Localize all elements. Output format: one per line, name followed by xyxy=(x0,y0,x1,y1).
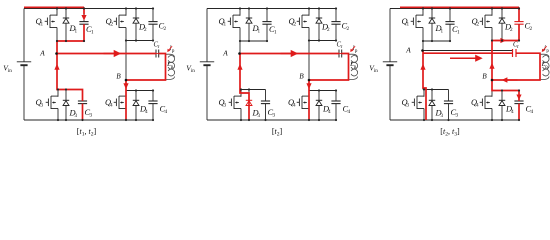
highlighted path: B group line to C4 xyxy=(492,80,519,101)
node B xyxy=(491,79,494,82)
arrow: ip current direction xyxy=(543,46,546,50)
wire: top rail xyxy=(390,8,519,10)
wire: top rail xyxy=(24,8,153,10)
svg-text:A: A xyxy=(405,46,411,55)
diode D2 xyxy=(316,9,322,41)
node B xyxy=(308,79,311,82)
svg-text:1: 1 xyxy=(407,22,410,28)
svg-text:3: 3 xyxy=(41,103,44,109)
svg-text:1: 1 xyxy=(441,29,444,35)
panel 3 xyxy=(369,7,549,137)
svg-text:1: 1 xyxy=(41,22,44,28)
wire: right bottom group line xyxy=(309,90,336,92)
wire: right leg crossing to node B xyxy=(491,41,493,81)
wire: Q4 leads / right leg lower xyxy=(125,80,127,120)
node A xyxy=(55,52,58,55)
svg-text:2: 2 xyxy=(144,27,147,33)
svg-text:[t2, t3]: [t2, t3] xyxy=(440,127,460,138)
transistor Q2 (right high-side switch) xyxy=(114,15,126,28)
arrow: ip current direction xyxy=(352,46,355,50)
svg-text:2: 2 xyxy=(510,27,513,33)
wire: left top group return line xyxy=(57,40,84,42)
svg-text:4: 4 xyxy=(165,109,168,115)
wire: Q2 leads / right leg upper xyxy=(125,9,127,41)
svg-text:3: 3 xyxy=(258,113,261,119)
highlighted path: B down through Q4 xyxy=(308,80,310,120)
svg-text:4: 4 xyxy=(348,109,351,115)
wire: bottom rail xyxy=(390,119,519,121)
wire: Q4 leads / right leg lower xyxy=(491,80,493,120)
wire: Q3 leads xyxy=(57,90,59,121)
arrow: return current toward B xyxy=(507,79,518,81)
svg-text:1: 1 xyxy=(457,30,460,36)
svg-text:B: B xyxy=(482,72,487,81)
svg-text:[t1, t2]: [t1, t2] xyxy=(77,127,97,138)
voltage source Vin xyxy=(17,9,31,121)
arrow: load current direction xyxy=(281,53,292,55)
wire: node A down + left bottom group line xyxy=(423,51,449,90)
wire: Q3 leads xyxy=(423,90,425,121)
svg-text:2: 2 xyxy=(347,26,350,32)
wire: node A to resonant capacitor xyxy=(240,53,339,55)
transistor Q1 (left high-side switch) xyxy=(228,15,240,28)
arrow: current up into node A xyxy=(54,64,59,70)
voltage source Vin xyxy=(383,9,397,121)
transistor Q3 (left low-side switch) xyxy=(46,96,58,109)
svg-text:4: 4 xyxy=(145,109,148,115)
svg-text:3: 3 xyxy=(224,103,227,109)
wire: Q3 leads xyxy=(240,90,242,121)
transistor Q4 (right low-side switch) xyxy=(480,96,492,109)
wire: right bottom group line xyxy=(492,90,519,92)
transistor Q1 (left high-side switch) xyxy=(45,15,57,28)
transformer primary winding Lp xyxy=(166,54,174,79)
svg-text:3: 3 xyxy=(441,113,444,119)
capacitor C3 xyxy=(261,90,270,121)
diode D3 xyxy=(429,90,435,121)
node A xyxy=(238,52,241,55)
svg-text:in: in xyxy=(374,68,378,74)
capacitor Cr (resonant, series) xyxy=(513,49,517,57)
capacitor C2 xyxy=(148,9,157,41)
arrow: current up into node A xyxy=(237,64,242,70)
svg-text:4: 4 xyxy=(511,109,514,115)
svg-text:1: 1 xyxy=(274,30,277,36)
diode D1 xyxy=(246,9,252,42)
highlighted path: load loop A-Cr-Lp-B xyxy=(240,53,339,55)
highlighted path: Q3 conducting up to node A xyxy=(423,51,426,121)
transistor Q4 (right low-side switch) xyxy=(114,96,126,109)
svg-text:2: 2 xyxy=(327,27,330,33)
highlighted path: D3 freewheeling up to node A xyxy=(240,54,249,121)
svg-text:3: 3 xyxy=(407,103,410,109)
svg-text:3: 3 xyxy=(273,113,276,119)
transformer primary winding Lp xyxy=(541,54,549,79)
svg-text:A: A xyxy=(39,49,45,58)
capacitor C4 xyxy=(514,91,523,121)
arrow: load current direction xyxy=(104,53,115,55)
arrow: current up from B xyxy=(489,63,494,69)
highlighted path: B down through Q4 xyxy=(125,80,127,120)
wire: Q2 leads / right leg upper xyxy=(491,9,493,41)
svg-text:2: 2 xyxy=(294,22,297,28)
arrow: ip current direction xyxy=(169,46,172,50)
wire: node A down + left bottom group line xyxy=(57,54,83,90)
transformer primary winding Lp xyxy=(349,54,357,79)
arrow: current toward C2 xyxy=(495,40,501,42)
wire: right leg crossing to node B xyxy=(308,41,310,81)
panel 1 xyxy=(3,7,175,137)
capacitor C1 xyxy=(79,9,88,42)
wire: left top group return line xyxy=(240,40,267,42)
highlighted path: C1 charging branch xyxy=(83,7,85,14)
diode D3 xyxy=(246,90,252,121)
svg-text:2: 2 xyxy=(477,22,480,28)
capacitor C2 xyxy=(331,9,340,41)
wire: Q1 drain/source leads xyxy=(239,9,241,42)
svg-text:1: 1 xyxy=(91,30,94,36)
svg-text:3: 3 xyxy=(90,113,93,119)
wire: Q4 leads / right leg lower xyxy=(308,80,310,120)
svg-text:4: 4 xyxy=(328,109,331,115)
svg-text:B: B xyxy=(116,72,121,81)
wire: left leg to node A xyxy=(239,41,241,54)
capacitor Cr (resonant, series) xyxy=(339,50,342,58)
wire: node A to resonant capacitor xyxy=(423,50,513,52)
transistor Q4 (right low-side switch) xyxy=(297,96,309,109)
highlighted path: load loop A-Cr-Lp-B xyxy=(57,53,156,55)
diode D2 xyxy=(133,9,139,41)
svg-text:2: 2 xyxy=(111,22,114,28)
wire: node A down + left bottom group line xyxy=(240,54,266,90)
svg-text:4: 4 xyxy=(293,103,296,109)
highlighted path: A to C3 (C3 discharging) xyxy=(57,54,83,102)
wire: node A to resonant capacitor xyxy=(57,53,156,55)
highlighted path: top rail to C1 xyxy=(24,6,84,8)
svg-text:A: A xyxy=(222,49,228,58)
voltage source Vin xyxy=(200,9,214,121)
transistor Q3 (left low-side switch) xyxy=(229,96,241,109)
capacitor C4 xyxy=(148,91,157,121)
highlighted path: load loop A-Cr-Lp-B xyxy=(423,52,513,54)
diode D1 xyxy=(429,9,435,42)
arrow: current down from B xyxy=(306,83,311,89)
arrow: current down from B xyxy=(123,83,128,89)
capacitor C1 xyxy=(445,9,454,42)
wire: left leg to node A xyxy=(422,41,424,51)
capacitor C1 xyxy=(262,9,271,42)
junction dots xyxy=(239,7,337,121)
wire: right bottom group line xyxy=(126,90,153,92)
transistor Q1 (left high-side switch) xyxy=(411,15,423,28)
node B xyxy=(125,79,128,82)
svg-text:1: 1 xyxy=(224,22,227,28)
diode D4 xyxy=(133,91,139,121)
diode D1 xyxy=(63,9,69,42)
diode D2 xyxy=(499,9,505,41)
node A xyxy=(421,49,424,52)
wire: bottom rail xyxy=(207,119,336,121)
svg-text:2: 2 xyxy=(530,26,533,32)
capacitor C2 xyxy=(514,9,523,41)
wire: right top group return line xyxy=(492,40,519,42)
wire: Q1 drain/source leads xyxy=(56,9,58,42)
wire: Q2 leads / right leg upper xyxy=(308,9,310,41)
wire: left top group return line xyxy=(423,40,450,42)
highlighted path: B up the right leg xyxy=(491,41,493,81)
svg-text:B: B xyxy=(299,72,304,81)
wire: top rail xyxy=(207,8,336,10)
svg-text:4: 4 xyxy=(531,109,534,115)
arrow: load current direction xyxy=(450,57,476,59)
wire: right top group return line xyxy=(309,40,336,42)
highlighted path: top rail to C2 xyxy=(400,6,519,8)
diode D4 xyxy=(499,91,505,121)
capacitor C3 xyxy=(78,90,87,121)
wire: right leg crossing to node B xyxy=(125,41,127,81)
junction dots xyxy=(56,7,154,121)
panel 2 xyxy=(186,7,358,137)
capacitor C4 xyxy=(331,91,340,121)
svg-text:1: 1 xyxy=(75,29,78,35)
junction dots xyxy=(422,7,520,121)
svg-text:3: 3 xyxy=(75,113,78,119)
capacitor Cr (resonant, series) xyxy=(156,50,159,58)
wire: Q1 drain/source leads xyxy=(422,9,424,42)
svg-text:4: 4 xyxy=(110,103,113,109)
svg-text:in: in xyxy=(191,68,195,74)
svg-text:1: 1 xyxy=(258,29,261,35)
wire: bottom rail xyxy=(24,119,153,121)
svg-text:in: in xyxy=(8,68,12,74)
capacitor C3 xyxy=(444,90,453,121)
diode D3 xyxy=(63,90,69,121)
wire: left leg to node A xyxy=(56,41,58,54)
arrow: current up into node A xyxy=(420,64,425,70)
wire: right top group return line xyxy=(126,40,153,42)
svg-text:4: 4 xyxy=(476,103,479,109)
svg-text:3: 3 xyxy=(456,113,459,119)
transistor Q2 (right high-side switch) xyxy=(480,15,492,28)
diode D4 xyxy=(316,91,322,121)
arrow: current into C1 xyxy=(81,15,86,21)
transistor Q2 (right high-side switch) xyxy=(297,15,309,28)
arrow: current into C4 xyxy=(516,95,521,100)
svg-text:2: 2 xyxy=(164,26,167,32)
highlighted path: C2 branch xyxy=(518,7,520,21)
transistor Q3 (left low-side switch) xyxy=(412,96,424,109)
